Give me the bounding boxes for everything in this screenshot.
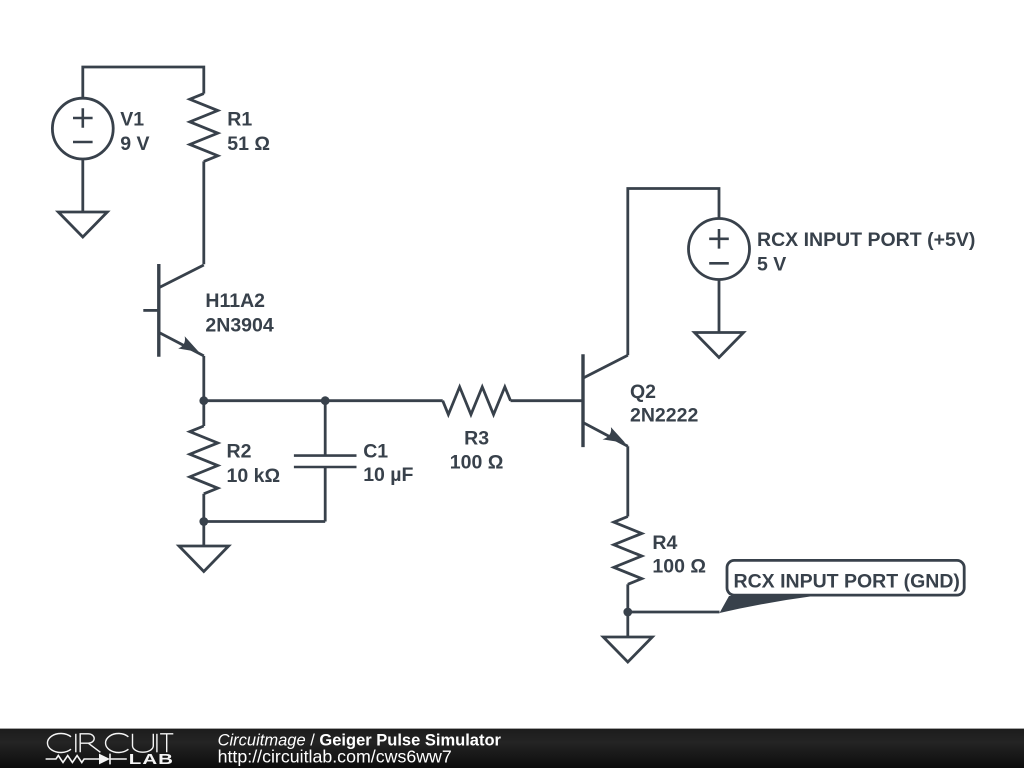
svg-text:100 Ω: 100 Ω	[450, 451, 504, 473]
wire	[628, 611, 720, 614]
wire	[202, 356, 205, 401]
net flag RCX INPUT PORT (GND)	[720, 560, 965, 613]
wire	[511, 399, 584, 402]
ground	[603, 637, 652, 662]
ground	[695, 333, 744, 358]
svg-text:9 V: 9 V	[120, 133, 149, 155]
node	[199, 517, 208, 526]
resistor R2	[190, 401, 218, 522]
svg-text:2N3904: 2N3904	[205, 315, 273, 337]
wire	[81, 159, 84, 212]
wire	[626, 584, 629, 612]
svg-text:R3: R3	[464, 428, 489, 450]
logo CIRCUIT	[47, 734, 173, 753]
svg-text:51 Ω: 51 Ω	[227, 133, 270, 155]
wire	[204, 520, 325, 523]
svg-text:LAB: LAB	[129, 751, 174, 768]
svg-text:100 Ω: 100 Ω	[652, 555, 706, 577]
resistor R1	[190, 94, 218, 162]
svg-text:R2: R2	[227, 441, 252, 463]
svg-text:RCX INPUT PORT (+5V): RCX INPUT PORT (+5V)	[757, 229, 975, 251]
svg-text:10 kΩ: 10 kΩ	[227, 465, 281, 487]
svg-text:V1: V1	[120, 109, 144, 131]
wire	[626, 612, 629, 637]
ground	[58, 212, 107, 237]
svg-text:R4: R4	[652, 532, 677, 554]
capacitor C1	[294, 401, 357, 522]
voltage source V1	[52, 98, 113, 159]
svg-text:http://circuitlab.com/cws6ww7: http://circuitlab.com/cws6ww7	[218, 747, 452, 767]
logo LAB	[129, 751, 174, 768]
ground	[179, 546, 229, 572]
svg-text:10 µF: 10 µF	[363, 464, 413, 486]
svg-text:R1: R1	[227, 109, 252, 131]
wire	[204, 399, 443, 402]
logo squiggle	[46, 754, 127, 765]
transistor Q2	[583, 354, 628, 447]
svg-text:2N2222: 2N2222	[630, 405, 698, 427]
wire	[628, 189, 719, 356]
wire	[626, 446, 629, 516]
wire	[83, 67, 204, 99]
wire	[202, 522, 205, 547]
resistor R4	[614, 517, 642, 585]
svg-text:RCX INPUT PORT (GND): RCX INPUT PORT (GND)	[734, 570, 960, 592]
node	[623, 608, 632, 617]
node	[321, 396, 330, 405]
footer title	[218, 731, 502, 766]
svg-text:Q2: Q2	[630, 381, 656, 403]
svg-text:5 V: 5 V	[757, 254, 786, 276]
footer bar	[0, 729, 1024, 768]
node	[199, 396, 208, 405]
wire	[718, 280, 721, 333]
wire	[202, 161, 205, 264]
voltage source V2	[689, 219, 750, 280]
transistor Q1	[143, 264, 204, 357]
svg-text:C1: C1	[363, 441, 388, 463]
svg-text:H11A2: H11A2	[205, 290, 265, 312]
resistor R3	[443, 387, 511, 415]
